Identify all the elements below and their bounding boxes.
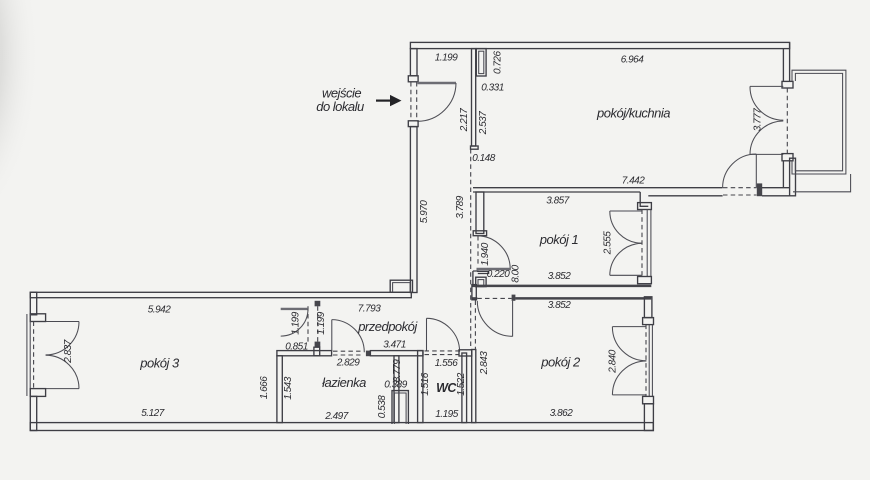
svg-text:1.522: 1.522	[456, 372, 467, 395]
svg-text:2.829: 2.829	[336, 358, 360, 369]
svg-text:pokój/kuchnia: pokój/kuchnia	[596, 106, 670, 121]
pokoj1 french door arc bottom	[610, 243, 642, 275]
pokoj3 door swing arc	[281, 309, 308, 336]
balcony door jamb bottom	[782, 154, 793, 161]
pokoj1 east french door jamb top	[638, 203, 652, 210]
wall: WC west	[418, 351, 423, 423]
wall: pokoj1 west wall (upper part)	[476, 192, 484, 234]
svg-text:WC: WC	[436, 381, 457, 395]
kuchnia south door post	[757, 183, 762, 196]
small wall step below pokoj1 door (0.220)	[473, 271, 489, 274]
svg-text:2.837: 2.837	[63, 339, 74, 363]
pokoj3 french door arc bottom	[46, 355, 79, 388]
svg-text:1.940: 1.940	[480, 242, 491, 265]
balcony french door arc top	[750, 86, 783, 120]
svg-text:0.148: 0.148	[472, 153, 495, 164]
balcony french door arc bottom	[750, 121, 783, 154]
wall: pokoj2 east lower / corner	[644, 404, 653, 431]
svg-text:1.195: 1.195	[435, 409, 458, 420]
svg-text:łazienka: łazienka	[322, 375, 366, 390]
pokoj2 door swing arc	[477, 301, 512, 337]
lazienka door swing arc	[332, 320, 365, 353]
pokoj1 top-right corner step	[640, 192, 648, 206]
pokoj1 door jamb tick	[473, 231, 486, 236]
pokoj3 french door arc top	[46, 322, 79, 355]
svg-text:3.852: 3.852	[548, 300, 571, 311]
building contour below balcony	[793, 174, 851, 192]
WC door leaf	[426, 318, 428, 350]
pokoj2 east door dashed	[645, 325, 647, 397]
svg-text:2.840: 2.840	[608, 349, 619, 373]
svg-text:0.726: 0.726	[493, 51, 504, 74]
wall: pokoj2 west (lower, solid)	[472, 350, 476, 423]
wall end cap left of pokoj1/pokoj2 wall	[472, 285, 476, 300]
WC door opening dashes	[425, 350, 460, 352]
wall: lazienka east	[394, 356, 399, 423]
pokoj3 east door opening dashes	[307, 306, 309, 341]
wall: kuchnia east wall lower segment	[782, 161, 784, 188]
pokoj2 east door jamb top	[643, 318, 654, 325]
svg-text:7.793: 7.793	[358, 304, 381, 315]
wall: left exterior upper	[30, 292, 36, 315]
svg-text:0.851: 0.851	[285, 342, 308, 353]
svg-text:3.852: 3.852	[548, 271, 571, 282]
pokoj3 west jamb top	[30, 314, 45, 322]
pokoj2 french door leaf bottom	[612, 394, 646, 396]
balcony door jamb top	[782, 81, 793, 88]
pokoj2 french door arc bottom	[612, 361, 646, 395]
wall: kuchnia south / pokoj1 north (7.442), with door opening at right	[473, 187, 723, 189]
svg-text:do lokalu: do lokalu	[316, 99, 364, 114]
wall: kuchnia east wall upper (above balcony door)	[782, 49, 784, 82]
svg-text:5.970: 5.970	[419, 200, 430, 223]
wall: lazienka north west segment	[277, 351, 332, 356]
svg-text:pokój 3: pokój 3	[139, 356, 180, 371]
pokoj1 east window glazing lines	[646, 210, 648, 277]
svg-text:7.442: 7.442	[622, 176, 645, 187]
wall: south exterior wall	[30, 423, 653, 431]
arrow to entrance	[376, 95, 402, 106]
wall: corridor left (west) wall lower, down to przedpokoj	[410, 127, 417, 293]
pokoj3 east door post bottom	[315, 342, 321, 348]
pokoj1 door swing arc	[477, 236, 510, 269]
pokoj1 east door opening dashed	[641, 210, 643, 277]
svg-text:1.199: 1.199	[316, 311, 327, 334]
wall: WC east	[462, 353, 467, 423]
svg-text:3.862: 3.862	[550, 408, 573, 419]
svg-text:6.964: 6.964	[621, 55, 644, 66]
pokoj1 duct box	[476, 277, 486, 286]
pokoj1 french door arc top	[610, 211, 642, 243]
wall: pokoj3 north / przedpokoj north	[30, 292, 411, 297]
svg-text:pokój 2: pokój 2	[540, 355, 581, 370]
page edge shadow top-left	[0, 0, 70, 300]
svg-text:2.217: 2.217	[459, 108, 470, 132]
svg-text:1.199: 1.199	[435, 53, 458, 64]
pokoj2 french door arc top	[612, 327, 646, 361]
wall: pokoj3 east below door	[314, 347, 320, 356]
balcony outline	[792, 70, 846, 174]
pokoj1 french door leaf top	[610, 210, 642, 212]
svg-text:3.857: 3.857	[546, 196, 569, 207]
svg-text:0.331: 0.331	[481, 83, 504, 94]
svg-text:5.127: 5.127	[141, 408, 164, 419]
lazienka door leaf	[331, 320, 333, 352]
svg-text:przedpokój: przedpokój	[357, 319, 418, 334]
svg-text:1.516: 1.516	[420, 372, 431, 395]
pokoj1 french door leaf bottom	[610, 274, 642, 276]
svg-text:2.497: 2.497	[324, 411, 348, 422]
svg-text:3.777: 3.777	[753, 108, 764, 131]
kuchnia south door leaf	[755, 154, 757, 188]
pokoj2 west open boundary dashes	[474, 301, 476, 350]
svg-text:0.538: 0.538	[377, 395, 388, 418]
duct above przedpokoj wall	[390, 280, 412, 292]
wall: WC north-east connector	[459, 350, 472, 356]
svg-text:5.942: 5.942	[148, 305, 171, 316]
lazienka door opening dashes	[333, 350, 361, 352]
WC door swing arc	[427, 318, 460, 351]
svg-text:1.543: 1.543	[283, 376, 294, 399]
entrance door jamb bottom	[408, 121, 418, 127]
balcony door opening dashed line	[786, 88, 788, 154]
pokoj3 french door leaf top	[46, 321, 79, 323]
wall: between pokoj1 and pokoj2 (north line)	[472, 285, 651, 288]
balcony french door leaf top	[750, 85, 783, 87]
kuchnia south thick wall lower line	[648, 195, 722, 197]
pokoj1 door opening dashes	[477, 236, 479, 267]
svg-text:8.00: 8.00	[511, 264, 522, 282]
wall: between entrance corridor and pokoj/kuchnia	[472, 49, 476, 146]
pokoj1 east french door jamb bottom	[638, 277, 652, 284]
shaft duct next to WC	[392, 391, 408, 424]
svg-text:2.843: 2.843	[479, 351, 490, 375]
pokoj3 east door post top	[315, 301, 321, 307]
entrance door swing arc	[417, 83, 456, 121]
balcony french door leaf bottom	[750, 153, 783, 155]
open-plan dashed boundary (corridor/kitchen), node line x=470.7	[470, 149, 472, 351]
kuchnia south door swing arc	[723, 154, 757, 188]
wall: lazienka north east segment to WC	[370, 351, 423, 356]
svg-text:2.555: 2.555	[603, 231, 614, 255]
svg-text:1.556: 1.556	[435, 358, 458, 369]
kuchnia south door opening dashes	[723, 187, 757, 189]
svg-text:1.199: 1.199	[291, 311, 302, 334]
svg-text:8.779: 8.779	[392, 359, 403, 382]
entrance door opening dashes	[410, 82, 412, 121]
pokoj3 west dashed opening	[33, 322, 35, 389]
wall: left exterior lower	[30, 396, 36, 430]
svg-text:2.537: 2.537	[478, 111, 489, 135]
svg-text:pokój 1: pokój 1	[539, 232, 579, 247]
svg-text:3.789: 3.789	[455, 195, 466, 218]
pokoj3 west window glazing lines	[26, 314, 28, 396]
pokoj2 door leaf	[512, 301, 514, 337]
duct near top wall (0.726 x 0.331)	[476, 49, 486, 76]
pokoj3 door leaf	[281, 308, 308, 310]
wall: corridor left (west) wall upper, above entrance door	[410, 49, 417, 76]
pokoj3 west jamb bottom	[30, 389, 45, 397]
pokoj1 door leaf (open)	[477, 268, 511, 270]
pokoj3 french door leaf bottom	[46, 388, 79, 390]
svg-text:1.666: 1.666	[259, 376, 270, 399]
svg-text:3.471: 3.471	[383, 340, 406, 351]
wall foot tick at end of corridor wall	[471, 146, 479, 149]
entrance door jamb top	[408, 76, 418, 82]
lazienka door post	[366, 351, 371, 357]
pokoj2 french door leaf top	[612, 326, 646, 328]
wall: top exterior wall of pokoj/kuchnia	[410, 42, 789, 48]
pokoj2 east door jamb bottom	[643, 396, 654, 403]
pokoj2 door post	[512, 295, 516, 301]
wall: pokoj2 east upper	[644, 297, 652, 318]
wall: pokoj2 north (south line) with door opening	[472, 297, 477, 300]
wall: lazienka west	[277, 356, 282, 423]
pokoj2 east glazing lines	[648, 325, 650, 397]
svg-text:0.220: 0.220	[487, 269, 510, 280]
entrance door leaf	[417, 82, 456, 84]
